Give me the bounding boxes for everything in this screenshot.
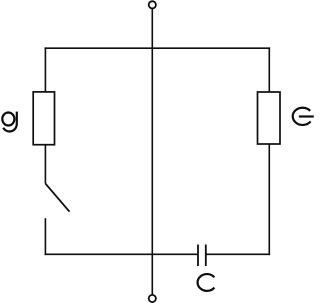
wire center vertical xyxy=(151,9,153,295)
label G xyxy=(293,108,314,125)
switch S1 blade xyxy=(45,184,69,212)
top terminal xyxy=(149,1,156,8)
capacitor C left plate xyxy=(197,245,199,267)
resistor box g xyxy=(33,92,54,145)
wire bottom right xyxy=(206,253,270,255)
capacitor C right plate xyxy=(205,245,207,267)
label g xyxy=(2,112,16,132)
wire right upper xyxy=(268,47,270,92)
wire right lower xyxy=(268,144,270,255)
wire left upper xyxy=(44,47,46,92)
wire left lower xyxy=(44,218,46,255)
resistor box G xyxy=(258,92,281,144)
bottom terminal xyxy=(149,295,156,302)
wire left middle xyxy=(44,145,46,184)
wire top horizontal xyxy=(45,47,271,49)
wire bottom left xyxy=(45,253,198,255)
label C xyxy=(198,274,215,291)
